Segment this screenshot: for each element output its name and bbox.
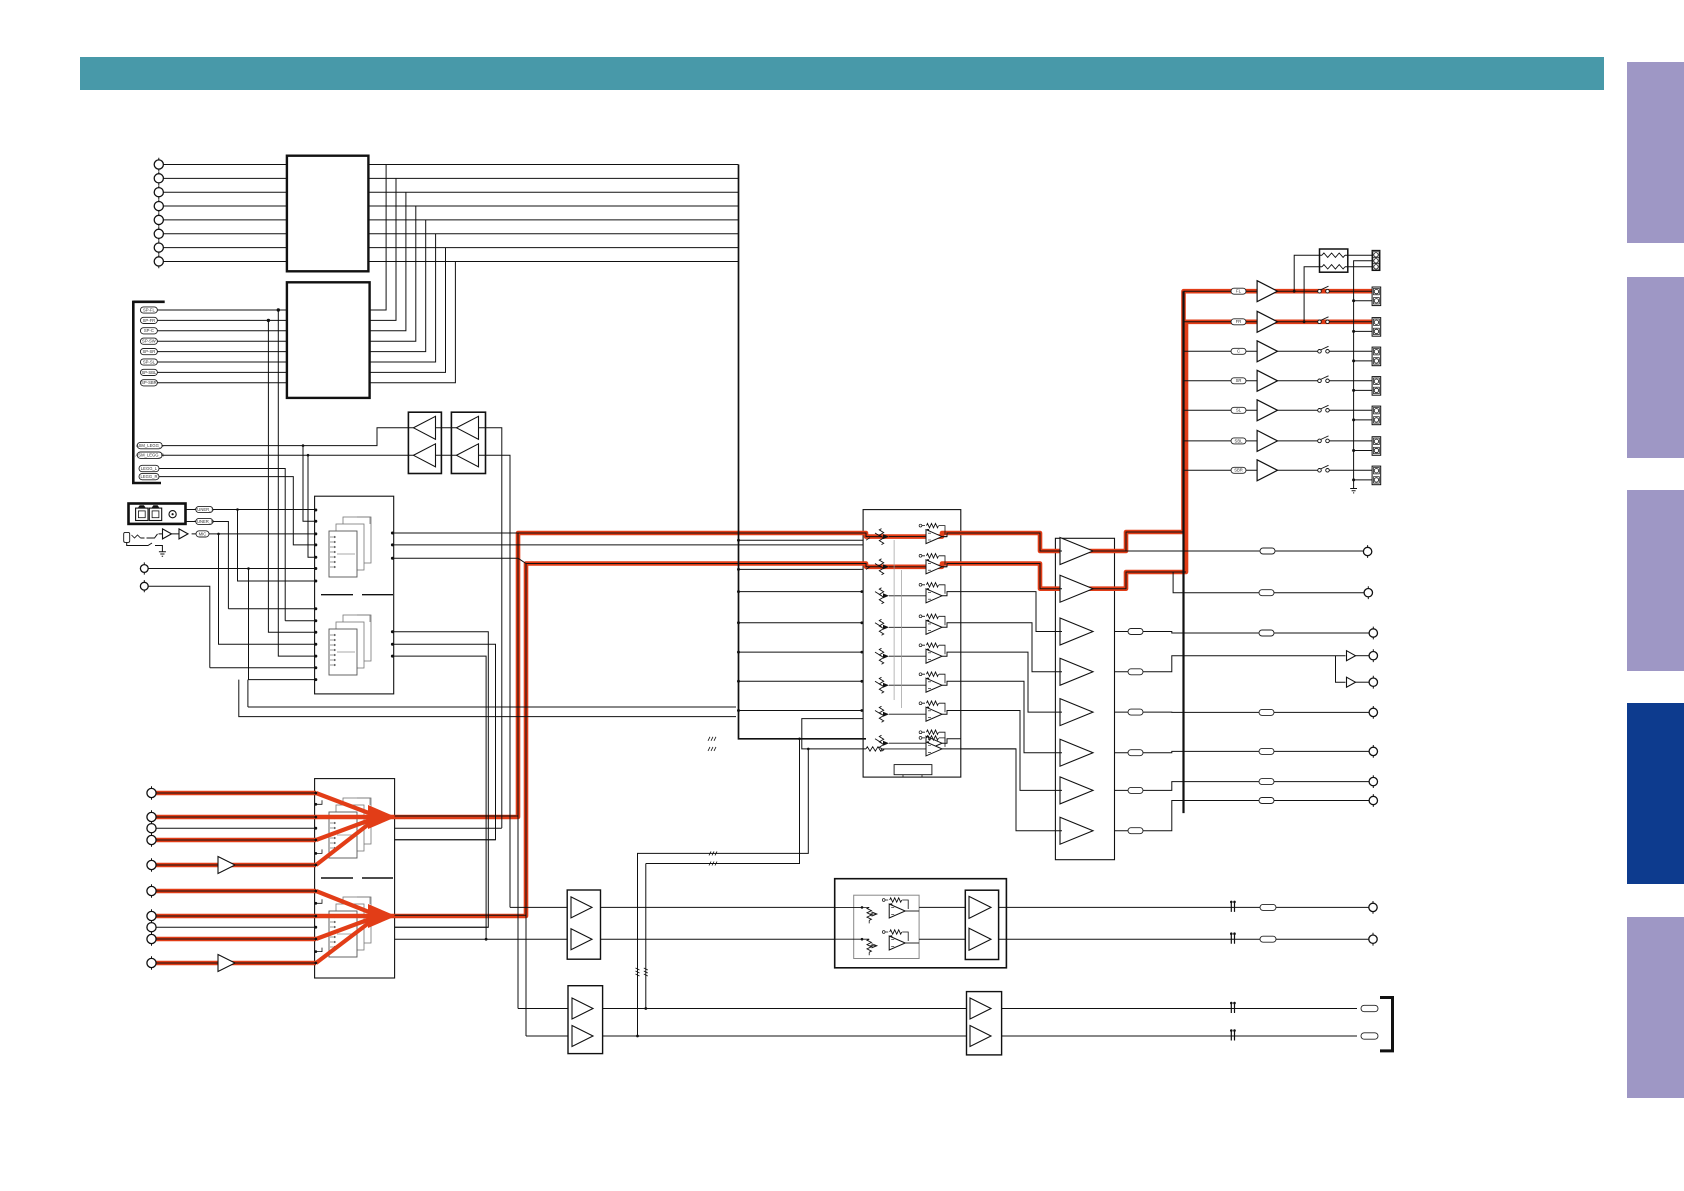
selector dashed divider: [321, 877, 393, 879]
wire bus to amp C: [1184, 350, 1258, 352]
wire LEGG_R to DSP: [159, 477, 314, 545]
wire input 891 to selector: [156, 890, 316, 892]
volume ch4 output wire: [942, 623, 961, 628]
wire red core vertical 526: [525, 564, 527, 1037]
wire terminal minus FL: [1354, 300, 1373, 302]
DSP input pin: [314, 631, 317, 634]
wire terminal minus SL: [1354, 419, 1373, 421]
relay SBL: [1318, 439, 1322, 443]
wire U2 out5 elbow: [370, 220, 426, 352]
preout connector 712.4: [1369, 708, 1377, 716]
wire amp SL to relay: [1278, 409, 1318, 411]
preout buffer tri 682: [1347, 677, 1356, 687]
label preout 633: [1259, 630, 1274, 636]
wire aux left to bus 715: [239, 680, 736, 717]
input connector J2: [154, 174, 163, 183]
DSP output pin: [391, 643, 394, 646]
DSP input pin: [314, 607, 317, 610]
analog input connector A1: [140, 565, 148, 573]
speaker terminal FR: [1372, 318, 1381, 337]
DSP input pin: [314, 567, 317, 570]
net label SP-SW: [140, 338, 157, 344]
receiver buffer triangle: [457, 444, 479, 467]
resistor R-zone-1: [1322, 253, 1345, 257]
svg-text:SP-SBR: SP-SBR: [141, 380, 157, 385]
selector REC out 828: [395, 827, 502, 829]
hp op-amp unit 1: [835, 906, 862, 908]
junction mic: [217, 533, 220, 536]
net label SP-C: [140, 328, 157, 334]
label LEGG_R: [139, 473, 159, 479]
label driver out 631: [1128, 629, 1143, 635]
junction A1: [247, 567, 250, 570]
selector config pin stub: [316, 948, 322, 952]
label driver out 671: [1128, 669, 1143, 675]
wire terminal minus SBL: [1354, 450, 1373, 452]
net label SP-SR: [140, 349, 157, 355]
label amp SBR: [1231, 467, 1246, 473]
mic buffer 2: [179, 529, 188, 539]
volume ch5 output wire: [942, 652, 961, 656]
hp op-amp unit 2: [835, 938, 862, 940]
DSP input pin: [314, 543, 317, 546]
wire amp SBL to relay: [1278, 440, 1318, 442]
wire terminal minus C: [1354, 360, 1373, 362]
wire LEGG_L to DSP: [159, 469, 314, 621]
DSP input pin: [314, 643, 317, 646]
wire U2 out7 elbow: [370, 248, 446, 373]
wire stub DSP in 557: [308, 455, 315, 557]
label preout 781.6: [1259, 779, 1274, 785]
red path front-L main run: [388, 291, 1374, 817]
preout connector 633: [1369, 629, 1377, 637]
volume input junction: [860, 651, 863, 654]
relay C: [1318, 350, 1322, 354]
wire DSP out 644.3 drop: [394, 644, 496, 839]
analog input connector B1: [147, 788, 156, 797]
DSP output pin: [391, 557, 394, 560]
wire DSP out 544.9 to volume: [394, 544, 863, 546]
svg-text:TUNER_R: TUNER_R: [194, 519, 214, 524]
wire hp out L: [1006, 906, 1369, 908]
input connector J1: [154, 160, 163, 169]
wire input 828 to selector: [156, 827, 316, 829]
svg-text:TUNER_L: TUNER_L: [195, 507, 215, 512]
wire bus to amp SBL: [1184, 440, 1258, 442]
wire A1 junction drop to DSP in 680: [249, 569, 315, 680]
wire relay to terminal FR: [1329, 321, 1372, 323]
wire terminal minus FR: [1354, 330, 1373, 332]
header bar: [80, 57, 1604, 90]
zone buffer tri 2: [572, 1026, 593, 1047]
resistor R-zone-2: [1322, 265, 1345, 269]
label hp R: [1260, 936, 1276, 942]
relay SL: [1318, 409, 1322, 413]
wire preout 655 with split: [1115, 656, 1346, 683]
wire preout 781.6: [1115, 782, 1370, 791]
analog input connector B3: [147, 824, 156, 833]
label amp SR: [1231, 378, 1246, 384]
bus branch to volume: [739, 591, 864, 593]
wire U2 out3 elbow: [370, 192, 406, 331]
speaker terminal SBL: [1372, 437, 1381, 456]
junction 486/939: [485, 938, 488, 941]
volume ch1 attenuator resistor: [879, 529, 883, 545]
selector input pin: [314, 792, 317, 795]
wire U2 out8 elbow: [370, 261, 456, 382]
wire input 865 via buffer: [156, 864, 316, 866]
power amp SR: [1257, 370, 1277, 391]
preout connector 800.5: [1369, 796, 1377, 804]
power amp C: [1257, 341, 1277, 362]
svg-text:SP-C: SP-C: [144, 328, 154, 333]
wire J1 to U1: [163, 164, 287, 166]
wire U1 pin3 to bus: [368, 191, 738, 193]
wire preout 751.4: [1115, 751, 1370, 752]
preout connector 655: [1369, 652, 1377, 660]
junction zone 2: [636, 1035, 639, 1038]
block U1 top decoder: [287, 156, 369, 272]
driver triangle 8: [1060, 817, 1093, 844]
volume ch6 attenuator resistor: [879, 677, 883, 693]
wire FR node to resistor: [1304, 267, 1322, 322]
junction ASM L: [302, 444, 305, 447]
power amp FR: [1257, 311, 1277, 332]
DSP dashed divider: [321, 594, 393, 596]
power amp SL: [1257, 400, 1277, 421]
input connector J6: [154, 229, 163, 238]
power bus vertical: [1182, 291, 1184, 813]
wire amp SR to relay: [1278, 380, 1318, 382]
wire relay to terminal SBR: [1329, 469, 1372, 471]
wire bus to amp FL: [1184, 290, 1258, 292]
selector config pin stub: [316, 800, 322, 804]
red path front-R main run: [388, 322, 1374, 916]
net label SP-SBL: [140, 369, 157, 375]
driver triangle 7: [1060, 777, 1093, 804]
tap line T1: [638, 749, 809, 1036]
DSP inner chip stack upper: [343, 517, 371, 563]
bus main vertical: [739, 165, 867, 739]
svg-text:LEGG_R: LEGG_R: [141, 474, 158, 479]
svg-text:FR: FR: [1236, 319, 1242, 324]
junction gnd FL: [1352, 299, 1355, 302]
wire SP-SBR to U2: [157, 382, 287, 384]
label driver out 790.4: [1128, 787, 1143, 793]
wire relay to terminal C: [1329, 350, 1372, 352]
label preout 751.4: [1259, 748, 1274, 754]
wire driver ch1 core: [942, 532, 1184, 551]
bus branch to volume: [739, 680, 864, 682]
wire J6 to U1: [163, 233, 287, 235]
wire preout 633: [1115, 632, 1370, 634]
bracket group left: [133, 301, 164, 485]
svg-text:MIC: MIC: [199, 531, 207, 536]
wire ASM_LEGG_L to box A: [162, 428, 485, 446]
coax connector: [169, 511, 176, 518]
ground symbol: [159, 552, 166, 557]
wire amp SBR to relay: [1278, 469, 1318, 471]
bus branch to volume: [739, 568, 864, 570]
wire SP-SBL to U2: [157, 371, 287, 373]
wire U2 out4 elbow: [370, 206, 416, 341]
zone buffer box left: [568, 986, 603, 1054]
junction U2 line1: [277, 308, 280, 311]
wire hp out R: [1006, 938, 1369, 940]
volume ch5 op-amp: [927, 643, 939, 647]
sidebar tab 1: [1627, 62, 1684, 243]
junction gnd SBR: [1352, 478, 1355, 481]
net label SP-FR: [140, 317, 157, 323]
DSP output pin: [391, 532, 394, 535]
volume ch5 attenuator resistor: [879, 648, 883, 664]
wire SP-FR to U2: [157, 319, 287, 321]
volume input junction: [860, 590, 863, 593]
wire mic to DSP: [192, 533, 315, 535]
wire relay to terminal SR: [1329, 380, 1372, 382]
wire input 963 via buffer: [156, 962, 316, 964]
volume pin hooks: [866, 538, 870, 570]
wire resistors to zone terminal: [1345, 255, 1372, 267]
wire red core horizontal 816: [395, 815, 518, 817]
wires hp lines to amp: [601, 907, 835, 939]
selector inner chip stack upper: [343, 798, 371, 844]
volume input junction: [860, 621, 863, 624]
input connector J3: [154, 188, 163, 197]
digital input panel: [129, 504, 186, 524]
red path front-L input fan: [156, 793, 374, 865]
wire U1 pin2 to bus: [368, 177, 738, 179]
volume ch7 attenuator resistor: [879, 706, 883, 722]
wire volume ch6 to driver: [961, 681, 1062, 752]
svg-text:SP-FR: SP-FR: [143, 318, 156, 323]
wire stub DSP in 521: [303, 446, 315, 522]
label TUNER_R: [196, 518, 213, 524]
label preout 712.4: [1259, 709, 1274, 715]
hp buffer triangle 1: [571, 897, 592, 918]
wire terminal minus SR: [1354, 389, 1373, 391]
speaker terminal SR: [1372, 377, 1381, 396]
wire relay to terminal SL: [1329, 409, 1372, 411]
junction gnd SR: [1352, 389, 1355, 392]
wire volume ch8 to driver: [961, 749, 1062, 831]
wire red core vertical 518: [517, 533, 519, 1009]
wire relay to terminal FL: [1329, 290, 1372, 292]
power amp FL: [1257, 281, 1277, 302]
wire amp FL to relay: [1278, 290, 1318, 292]
zone label 2: [1361, 1033, 1378, 1039]
svg-text:SL: SL: [1236, 408, 1242, 413]
sidebar tab 2: [1627, 277, 1684, 458]
svg-text:SBL: SBL: [1235, 438, 1244, 443]
selector input pin: [314, 915, 317, 918]
label preout 800.5: [1259, 798, 1274, 804]
red selector arrow R: [368, 904, 396, 928]
volume ch8 outboard feed: [802, 719, 866, 749]
selector input pin: [314, 890, 317, 893]
selector input pin: [314, 864, 317, 867]
wire J8 to U1: [163, 260, 287, 262]
DSP output pin: [391, 655, 394, 658]
wire bus to amp SL: [1184, 409, 1258, 411]
bus branch to volume: [739, 651, 864, 653]
zone driver tri 2: [970, 1026, 991, 1047]
wire volume ch5 to driver: [961, 652, 1062, 712]
headphone amp inner IC: [854, 895, 919, 958]
volume ch2 op-amp: [927, 554, 939, 558]
wire J3 to U1: [163, 191, 287, 193]
wire amp FR to relay: [1278, 321, 1318, 323]
wire zone terminal mid to gnd: [1354, 260, 1373, 262]
DSP input pin: [314, 532, 317, 535]
volume ch2 attenuator resistor: [879, 559, 883, 575]
headphone driver box: [965, 890, 998, 959]
wire U2 out2 elbow: [370, 178, 396, 320]
zone label 1: [1361, 1005, 1378, 1011]
headphone amp outer box: [835, 879, 1007, 968]
net label SP-FL: [140, 307, 157, 313]
DSP inner chip stack lower: [343, 615, 371, 661]
selector config pin stub: [316, 899, 322, 903]
input buffer triangle: [218, 857, 235, 874]
label driver out 752.7: [1128, 750, 1143, 756]
jack sleeve wire to ground: [127, 542, 163, 551]
jack switch squiggle: [132, 535, 141, 538]
svg-text:C: C: [1237, 349, 1240, 354]
DSP block U3: [315, 496, 394, 694]
hp connector R: [1369, 935, 1377, 943]
selector input pin: [314, 827, 317, 830]
wire J5 to U1: [163, 219, 287, 221]
volume ch4 op-amp: [927, 614, 939, 618]
analog input connector B2: [147, 812, 156, 821]
wire preout 800.5: [1115, 801, 1370, 831]
wire bus to amp FR: [1184, 321, 1258, 323]
analog input connector B8: [147, 923, 156, 932]
driver triangle 6: [1060, 739, 1093, 766]
wire input 939 to selector: [156, 938, 316, 940]
junction zone 1: [644, 1007, 647, 1010]
sidebar tab 3: [1627, 490, 1684, 671]
zone cap 1: [1231, 1004, 1234, 1013]
wire SP-SL to U2: [157, 361, 287, 363]
selector input pin: [314, 839, 317, 842]
driver triangle 4: [1060, 658, 1093, 685]
DSP input pin: [314, 666, 317, 669]
zone terminal block: [1372, 250, 1380, 270]
zone resistor box: [1320, 249, 1348, 272]
headphone jack symbol: [124, 532, 130, 542]
wire DSP out 631.8 drop: [394, 632, 489, 927]
preout buffer tri 655: [1347, 651, 1356, 661]
wire SP-SR to U2: [157, 351, 287, 353]
analog input connector B7: [147, 911, 156, 920]
hp coupling cap R: [1231, 935, 1234, 944]
wire volume ch4 to driver: [961, 623, 1062, 672]
DSP input pin: [314, 556, 317, 559]
speaker terminal FL: [1372, 287, 1381, 306]
wire zone line 2: [526, 1035, 1357, 1037]
junction gnd SL: [1352, 418, 1355, 421]
wire ASM_LEGG_R to box A: [162, 454, 485, 456]
receiver buffer triangle: [457, 416, 479, 439]
speaker terminal C: [1372, 347, 1381, 366]
ground symbol right: [1350, 489, 1357, 493]
junction ASM R: [307, 454, 310, 457]
net label SP-SL: [140, 359, 157, 365]
bus branch to volume: [739, 710, 864, 712]
net label SP-SBR: [140, 380, 157, 386]
label hp L: [1260, 904, 1276, 910]
driver triangle 1: [1060, 538, 1093, 565]
volume ch7 output wire: [942, 711, 961, 715]
zone driver tri 1: [970, 998, 991, 1019]
zone output bracket: [1380, 998, 1393, 1051]
hp driver triangle 1: [969, 896, 991, 918]
wire tunerL junction drop to DSP in 581: [238, 510, 315, 582]
wire input 817 to selector: [156, 816, 316, 818]
preout connector 682: [1369, 678, 1377, 686]
input connector J8: [154, 257, 163, 266]
volume ch7 op-amp: [927, 701, 939, 705]
receiver buffer triangle: [414, 444, 436, 467]
preout connector 592: [1364, 589, 1372, 597]
speaker terminal SBR: [1372, 466, 1381, 485]
DSP input pin: [314, 655, 317, 658]
wire U1 pin1 to bus: [368, 164, 738, 166]
volume gray sense lines: [894, 540, 902, 708]
preout connector 751.4: [1369, 747, 1377, 755]
volume ch1 output wire: [942, 533, 961, 537]
volume ch2 output wire: [942, 564, 961, 567]
selector input pin: [314, 926, 317, 929]
selector input pin: [314, 962, 317, 965]
zone driver box right: [967, 992, 1002, 1055]
svg-text:FL: FL: [1236, 289, 1242, 294]
analog input connector A2: [140, 582, 148, 590]
wire SP-SW to U2: [157, 340, 287, 342]
volume ch3 output wire: [942, 592, 961, 596]
wire volume ch7 to driver: [961, 711, 1062, 791]
DSP input pin: [314, 520, 317, 523]
label MIC: [196, 531, 209, 537]
driver box U6: [1055, 538, 1114, 859]
receiver buffer triangle: [414, 416, 436, 439]
junction U2 line2: [267, 319, 270, 322]
wire jack to buffers: [141, 534, 180, 538]
wire amp C to relay: [1278, 350, 1318, 352]
wire input 840 to selector: [156, 839, 316, 841]
svg-text:ASM_LEGG_R: ASM_LEGG_R: [135, 453, 163, 458]
svg-text:SP-FL: SP-FL: [143, 307, 156, 312]
wire input 927 to selector: [156, 926, 316, 928]
input connector J7: [154, 243, 163, 252]
label driver out 830.7: [1128, 828, 1143, 834]
label ASM_LEGG_L: [137, 442, 162, 448]
junction tuner L: [236, 508, 239, 511]
label LEGG_L: [139, 465, 159, 471]
wire tuner L to DSP: [186, 509, 315, 511]
tap line T2: [646, 739, 800, 1009]
hp buffer triangle 2: [571, 929, 592, 950]
label amp C: [1231, 348, 1246, 354]
volume input junction: [860, 680, 863, 683]
power amp SBL: [1257, 430, 1277, 451]
hp driver triangle 2: [969, 928, 991, 950]
relay FR: [1318, 320, 1322, 324]
wire U1 pin8 to bus: [368, 260, 738, 262]
red selector arrow L: [368, 805, 396, 829]
